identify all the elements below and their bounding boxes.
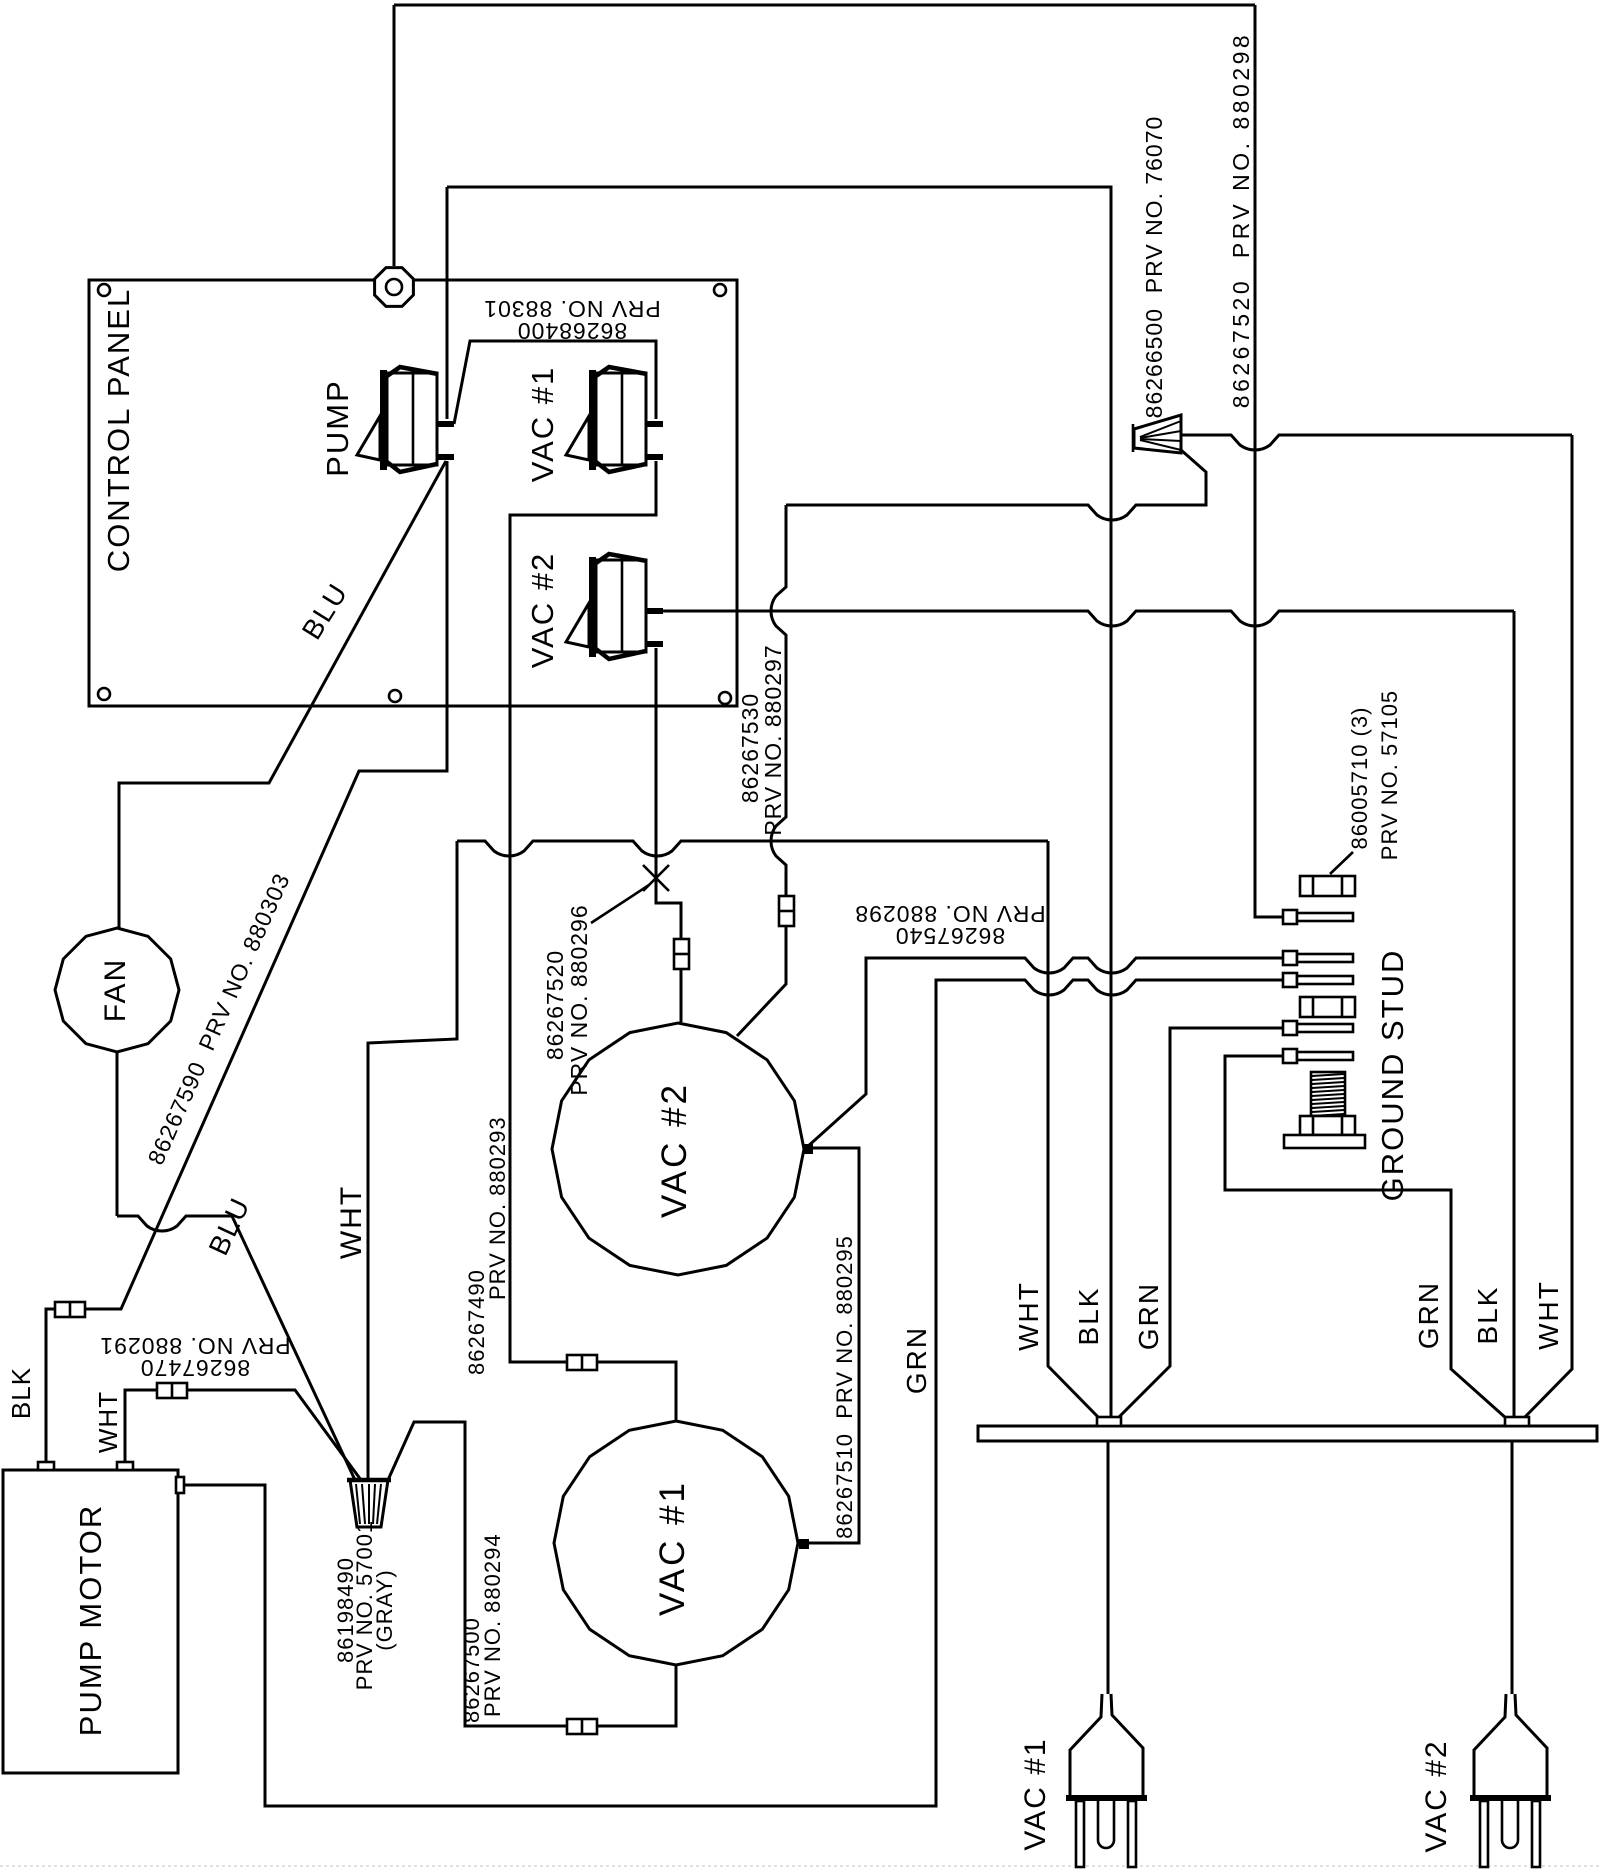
svg-text:PRV NO. 880298: PRV NO. 880298: [854, 901, 1045, 927]
wire BLU: FAN bottom to gray wire nut: [117, 1216, 355, 1480]
svg-text:WHT: WHT: [335, 1185, 368, 1259]
plug VAC #1: [1066, 1694, 1147, 1867]
svg-text:86267510 PRV NO. 880295: 86267510 PRV NO. 880295: [832, 1235, 857, 1539]
wire 86267490 PRV NO. 880293: VAC #1 switch bottom terminal to VAC #1 motor top: [510, 461, 656, 1362]
wire: BLK segment from splice to pump motor pad: [46, 1309, 56, 1462]
svg-text:BLK: BLK: [1073, 1287, 1104, 1346]
svg-text:VAC #1: VAC #1: [653, 1480, 692, 1616]
svg-text:PRV NO. 880293: PRV NO. 880293: [485, 1116, 510, 1300]
panel mounting screw top-left: [98, 284, 110, 296]
svg-text:PRV NO. 880294: PRV NO. 880294: [480, 1533, 505, 1717]
splice connector on wire 86267500: [567, 1719, 597, 1734]
ground stud terminal row 0: [1283, 910, 1353, 924]
svg-text:GRN: GRN: [1133, 1282, 1164, 1350]
pump motor box: [3, 1470, 178, 1773]
pump motor terminal pad WHT: [117, 1462, 133, 1470]
svg-text:VAC #2: VAC #2: [655, 1082, 694, 1218]
control panel outline: [89, 280, 737, 706]
VAC #2 motor (16-sided circle): [552, 1023, 804, 1275]
splice connector on wire 86267520: [674, 939, 689, 969]
wire: right vertical 1255 down to ground stud terminal row 0: [1255, 5, 1283, 917]
splice connector on wire 86267530: [779, 896, 794, 926]
wire: vertical into PUMP switch top terminal: [446, 187, 449, 419]
wire 86267520 PRV NO. 880298: panel loop y=187 and BLK feed down to bus funnel: [447, 187, 1111, 1417]
wire: ground stud terminal row 3 to bus bar GRN funnel (left): [1117, 1028, 1283, 1419]
bus bar ferrule left (VAC #1 cable): [1097, 1417, 1121, 1426]
svg-text:BLK: BLK: [6, 1367, 36, 1419]
VAC #2 motor terminal: [803, 1144, 813, 1154]
wire WHT: gray wire nut up, across y=841, down to bus bar WHT funnel: [368, 841, 457, 1480]
splice connector on WHT wire 86267470: [157, 1383, 187, 1398]
svg-text:WHT: WHT: [1533, 1280, 1564, 1350]
pump motor terminal pad BLK: [38, 1462, 54, 1470]
wire 86267470 PRV NO. 880291 WHT: pump motor to gray wire nut: [125, 1390, 158, 1462]
label 86268400 PRV NO. 88301 (rotated 180): [483, 296, 661, 344]
svg-text:VAC #1: VAC #1: [1019, 1737, 1052, 1850]
switch PUMP rocker switch: [357, 367, 454, 472]
svg-text:PRV NO. 880297: PRV NO. 880297: [760, 644, 786, 835]
panel nut (hex) at top: [375, 268, 414, 307]
svg-text:FAN: FAN: [99, 958, 132, 1022]
panel mounting screw bottom-right: [719, 692, 731, 704]
svg-text:WHT: WHT: [1013, 1281, 1044, 1351]
page edge (decorative): [0, 1865, 1600, 1867]
svg-text:VAC #2: VAC #2: [525, 552, 560, 669]
wire 86266500 PRV NO. 76070: wire nut to bus bar WHT funnel (right): [1181, 435, 1572, 450]
plug VAC #2: [1470, 1694, 1551, 1867]
label 86267470 PRV NO. 880291 (rotated 180): [99, 1333, 290, 1381]
wire: VAC #1 plug cord: [1107, 1441, 1110, 1694]
power strip bus bar: [978, 1426, 1597, 1441]
svg-text:(GRAY): (GRAY): [372, 1569, 397, 1650]
wire BLU: PUMP bottom terminal to FAN top: [119, 461, 446, 928]
svg-text:GRN: GRN: [1413, 1281, 1444, 1349]
wire 86267520 PRV NO. 880296: VAC #2 switch bottom terminal to VAC #2 motor top: [656, 648, 681, 940]
connector 86005710 lower: [1300, 997, 1355, 1017]
svg-text:86266500 PRV NO. 76070: 86266500 PRV NO. 76070: [1141, 116, 1167, 419]
wire 86267500 PRV NO. 880294: gray wire nut to VAC #1 motor bottom: [388, 1422, 568, 1726]
ground stud terminal row 1: [1283, 951, 1353, 965]
connector 86005710 upper: [1300, 852, 1355, 896]
svg-text:PUMP: PUMP: [320, 379, 355, 477]
wire: VAC #2 plug cord: [1511, 1441, 1514, 1694]
panel mounting screw bottom-left: [98, 688, 110, 700]
svg-text:WHT: WHT: [93, 1391, 123, 1453]
wire: FAN bottom stem: [116, 1052, 119, 1216]
svg-text:VAC #2: VAC #2: [1420, 1739, 1453, 1852]
wire GRN: pump motor to ground stud terminal row 2: [180, 980, 1283, 1806]
wire: stem from top line down to panel nut: [393, 5, 396, 266]
svg-text:PRV NO. 880296: PRV NO. 880296: [566, 904, 592, 1095]
switch VAC #1 rocker switch: [566, 367, 663, 472]
svg-text:PRV NO. 880291: PRV NO. 880291: [99, 1333, 290, 1359]
wire nut 86266500: [1133, 415, 1181, 453]
ground stud terminal row 2: [1283, 973, 1353, 987]
splice connector on wire 86267490: [567, 1355, 597, 1370]
svg-text:86267520: 86267520: [542, 950, 568, 1060]
svg-text:BLK: BLK: [1472, 1286, 1503, 1345]
VAC #1 motor terminal: [799, 1539, 809, 1549]
svg-text:GRN: GRN: [901, 1326, 932, 1394]
ground stud terminal row 3: [1283, 1021, 1353, 1035]
wire: ground stud terminal row 4 to bus bar GRN funnel (right): [1225, 1056, 1507, 1419]
wire 86267590 PRV NO. 880303 + BLK: PUMP bottom terminal down-left to pump motor: [84, 461, 447, 1309]
svg-text:86005710 (3): 86005710 (3): [1347, 707, 1372, 850]
svg-text:PRV NO. 88301: PRV NO. 88301: [483, 296, 661, 322]
splice connector on BLK wire: [55, 1302, 85, 1317]
wire 86267510 PRV NO. 880295: VAC #1 motor terminal to VAC #2 motor terminal: [807, 1148, 859, 1543]
VAC #1 motor (16-sided circle): [554, 1421, 798, 1665]
X splice mark (880296 callout): [591, 865, 669, 923]
fan (12-sided circle): [55, 928, 179, 1052]
wire: VAC #2 switch top terminal to bus bar BLK funnel (right): [662, 611, 1514, 626]
panel mounting screw top-right: [714, 284, 726, 296]
switch VAC #2 rocker switch: [566, 554, 663, 659]
ground stud bolt: [1284, 1072, 1365, 1148]
ground stud terminal row 4: [1283, 1049, 1353, 1063]
panel mounting screw bottom-middle: [389, 690, 401, 702]
wire 86267530 PRV NO. 880297: VAC #2 motor to wire nut junction: [771, 505, 786, 897]
svg-text:PRV NO. 57105: PRV NO. 57105: [1377, 690, 1402, 860]
wire 86268400 PRV NO. 88301: PUMP top terminal to VAC #1 switch top terminal: [454, 341, 656, 424]
svg-text:CONTROL PANEL: CONTROL PANEL: [101, 288, 136, 572]
label 86267540 PRV NO. 880298 (rotated 180): [854, 901, 1045, 949]
wire: ground stud terminal row 1 to VAC #2 motor terminal: [806, 958, 1283, 1148]
gray wire nut 86198490: [347, 1480, 391, 1527]
svg-text:PUMP MOTOR: PUMP MOTOR: [73, 1504, 108, 1736]
bus bar ferrule right (VAC #2 cable): [1505, 1417, 1529, 1426]
pump motor terminal pad GRN (right side): [176, 1477, 184, 1493]
svg-text:GROUND STUD: GROUND STUD: [1375, 949, 1410, 1202]
wire: top feed from control panel nut to right side: [394, 4, 1255, 7]
svg-text:VAC #1: VAC #1: [525, 366, 560, 483]
svg-text:86267520 PRV NO. 880298: 86267520 PRV NO. 880298: [1228, 32, 1254, 408]
